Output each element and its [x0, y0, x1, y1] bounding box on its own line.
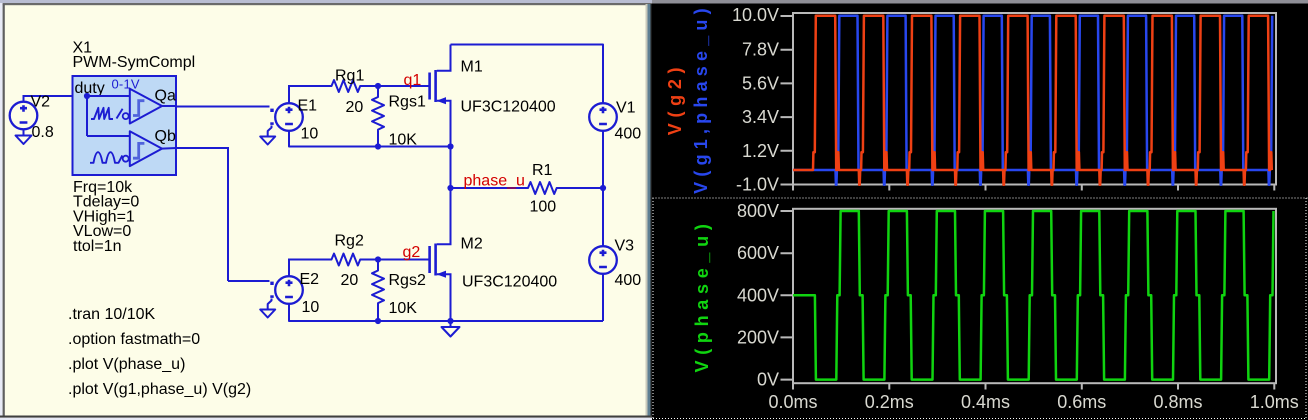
top pane y ticks [781, 16, 794, 185]
top pane frame [793, 13, 1276, 185]
node dot phase left [447, 185, 453, 191]
svg-text:Rg2: Rg2 [335, 233, 364, 250]
svg-text:.plot V(g1,phase_u) V(g2): .plot V(g1,phase_u) V(g2) [68, 381, 251, 398]
bottom pane frame [793, 209, 1276, 383]
svg-text:0.4ms: 0.4ms [961, 392, 1010, 412]
resistor R1 [526, 182, 564, 194]
wire V2 bottom stub [23, 129, 25, 136]
top chrome strip left [0, 0, 652, 3]
svg-text:400: 400 [615, 126, 642, 143]
right window edge [646, 4, 648, 416]
svg-text:10K: 10K [389, 300, 418, 317]
subcircuit X1 box [73, 76, 177, 175]
vcvs E2 [275, 276, 303, 304]
wire Rgs2 bottom [377, 313, 379, 322]
wire Qb output [162, 147, 176, 150]
input bubble A [123, 113, 129, 119]
left window edge [0, 3, 3, 417]
wire E2 bottom rail [289, 304, 603, 322]
voltage source V3 [589, 246, 617, 274]
resistor Rgs1 [372, 93, 384, 139]
svg-text:3.4V: 3.4V [742, 107, 779, 127]
trace V(phase_u) green [793, 211, 1274, 380]
wire V2 top to duty [23, 95, 25, 103]
nmos M2 [428, 246, 431, 273]
svg-text:g2: g2 [403, 244, 421, 261]
svg-text:0.2ms: 0.2ms [865, 392, 914, 412]
E2 control - pin [270, 295, 273, 298]
wire M2 drain up [450, 188, 452, 245]
selection dotted right [1305, 198, 1307, 419]
svg-text:V(phase_u): V(phase_u) [692, 218, 712, 372]
svg-text:ttol=1n: ttol=1n [73, 238, 121, 255]
svg-text:V(g1,phase_u): V(g1,phase_u) [691, 3, 711, 194]
svg-text:Rg1: Rg1 [335, 68, 364, 85]
svg-text:20: 20 [341, 272, 359, 289]
resistor Rg1 [329, 80, 367, 92]
svg-text:400V: 400V [737, 285, 779, 305]
wire duty to comparator A [87, 95, 130, 97]
svg-text:0.0ms: 0.0ms [768, 392, 817, 412]
ground V2 [16, 136, 32, 145]
node duty dot [84, 93, 90, 99]
wire Rgs2 top stub [377, 260, 379, 269]
svg-text:0-1V: 0-1V [112, 77, 140, 92]
E2 control + pin [270, 282, 273, 285]
svg-text:0.8ms: 0.8ms [1153, 392, 1202, 412]
sawtooth icon A [91, 108, 123, 119]
E1 control ground stub [268, 126, 272, 137]
svg-text:0.6ms: 0.6ms [1057, 392, 1106, 412]
selection dotted bottom [653, 418, 1306, 420]
wire E1 bottom loop [289, 131, 451, 147]
svg-text:-1.0V: -1.0V [736, 175, 779, 195]
svg-text:Rgs2: Rgs2 [389, 272, 426, 289]
svg-text:Qb: Qb [155, 128, 176, 145]
svg-text:600V: 600V [737, 243, 779, 263]
svg-text:q1: q1 [404, 72, 422, 89]
svg-text:800V: 800V [737, 201, 779, 221]
svg-text:.option fastmath=0: .option fastmath=0 [68, 331, 200, 348]
svg-text:UF3C120400: UF3C120400 [461, 99, 556, 116]
svg-text:1.0ms: 1.0ms [1250, 392, 1299, 412]
top chrome strip right [652, 0, 1308, 4]
svg-text:400: 400 [615, 272, 642, 289]
wire Rgs1 top stub [377, 86, 379, 95]
top border line [0, 3, 652, 5]
svg-text:0V: 0V [757, 370, 779, 390]
trace V(g2) red [793, 16, 1272, 185]
svg-text:200V: 200V [737, 327, 779, 347]
svg-text:0.8: 0.8 [32, 124, 54, 141]
schematic window background [0, 0, 652, 420]
wire Rg2 to gate [366, 259, 430, 261]
svg-text:E2: E2 [300, 271, 320, 288]
node dot phase right [600, 185, 606, 191]
wire E1 top [288, 85, 290, 104]
nmos M1 [428, 73, 431, 100]
wire V3 bottom [602, 274, 604, 322]
svg-text:10.0V: 10.0V [732, 5, 779, 25]
svg-text:phase_u: phase_u [464, 173, 525, 190]
wire Rg1 to gate [366, 85, 430, 87]
wire R1 right [564, 187, 604, 189]
voltage source V2 [10, 102, 38, 130]
bottom pane x ticks [793, 383, 1274, 389]
wire Qb down [227, 147, 229, 281]
svg-text:E1: E1 [298, 98, 318, 115]
svg-text:100: 100 [530, 199, 557, 216]
hysteresis glyph B [133, 143, 144, 158]
wire right rail to V3 [602, 188, 604, 247]
svg-text:UF3C120400: UF3C120400 [462, 274, 557, 291]
ground E1 control [260, 137, 275, 145]
wire E2 top [288, 259, 290, 277]
wire Qb to E2 control [228, 280, 270, 282]
node dot Rgs1/source [375, 143, 381, 149]
svg-text:V1: V1 [616, 100, 636, 117]
node q2 dot [375, 256, 381, 262]
svg-text:M2: M2 [461, 236, 483, 253]
svg-text:M1: M1 [461, 59, 483, 76]
resistor Rgs2 [372, 267, 384, 313]
wire V1 bottom [602, 131, 604, 189]
waveform window background [652, 0, 1308, 420]
node dot M1 source [447, 143, 453, 149]
ground main [450, 321, 452, 327]
svg-text:1.2V: 1.2V [742, 141, 779, 161]
wire Qa output to E1 control [162, 105, 176, 107]
node dot Rgs2 bottom [375, 318, 381, 324]
comparator A triangle [130, 89, 162, 124]
wire phase_u [451, 187, 526, 189]
voltage source V1 [589, 103, 617, 131]
bottom pane y ticks [781, 211, 794, 380]
sawtooth icon B [90, 152, 122, 163]
wire M1 source down to phase [450, 147, 452, 189]
hysteresis glyph A [133, 101, 144, 116]
E2 control ground stub [268, 299, 272, 310]
svg-text:.plot V(phase_u): .plot V(phase_u) [68, 356, 185, 373]
selection dotted left [652, 198, 654, 419]
trace V(g1,phase_u) blue [793, 16, 1272, 185]
svg-text:10: 10 [302, 299, 320, 316]
E1 control + pin [270, 109, 273, 112]
svg-text:PWM-SymCompl: PWM-SymCompl [73, 54, 196, 71]
E1 control - pin [270, 122, 273, 125]
comparator B triangle [130, 131, 162, 166]
input bubble B [123, 156, 129, 162]
ground E2 control [260, 310, 275, 318]
svg-text:7.8V: 7.8V [742, 40, 779, 60]
node dot M2 source [447, 318, 453, 324]
svg-text:10: 10 [301, 126, 319, 143]
svg-text:20: 20 [346, 99, 364, 116]
waveform window black area [652, 5, 1308, 420]
pane separator dotted [653, 197, 1308, 199]
wire Rgs1 bottom [377, 139, 379, 147]
vcvs E1 [275, 103, 303, 131]
svg-text:V3: V3 [615, 238, 635, 255]
svg-text:5.6V: 5.6V [742, 73, 779, 93]
wire duty down to comparator B [86, 96, 88, 136]
svg-text:Qa: Qa [155, 88, 176, 105]
svg-text:R1: R1 [532, 162, 553, 179]
wire top rail [451, 45, 604, 104]
svg-text:Rgs1: Rgs1 [389, 94, 426, 111]
svg-text:.tran 10/10K: .tran 10/10K [68, 306, 156, 323]
svg-text:V2: V2 [31, 94, 51, 111]
top pane x ticks [793, 185, 1274, 191]
node q1 dot [375, 83, 381, 89]
bottom window edge [0, 416, 652, 418]
resistor Rg2 [329, 254, 367, 266]
svg-text:V(g2): V(g2) [665, 62, 685, 136]
